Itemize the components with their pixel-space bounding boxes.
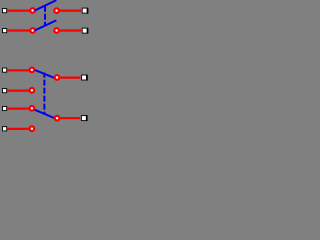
pole C throw 2: contact circle (30, 88, 35, 93)
mechanical link dashed S2 (43, 73, 45, 114)
pole B: pin square right (82, 28, 87, 33)
pole B: contact circle right (54, 28, 59, 33)
pole D throw 2: pin square (3, 127, 7, 131)
pole B: pin square left (3, 29, 7, 33)
pole C throw 2: wire (7, 89, 30, 91)
pole D common: pin square thick edge (86, 115, 87, 121)
pole D lever (closed to throw 1) (35, 110, 54, 118)
background (0, 0, 91, 141)
pole D common: wire (60, 117, 80, 119)
pole A: wire right (60, 10, 81, 12)
pole C lever (closed to throw 1) (35, 70, 54, 78)
pole B: wire right (60, 29, 81, 31)
pole C common: pin square thick edge (86, 75, 87, 81)
pole A: wire left (7, 10, 30, 12)
pole B: pin square right thick edge (87, 28, 88, 34)
pole B: lever (blue, open up-right) (35, 20, 57, 30)
switch schematic: ganged DPST (top) and DPDT (bottom) (0, 0, 91, 141)
pole C throw 1: contact circle (30, 68, 35, 73)
pole A: pin square right thick edge (87, 8, 88, 14)
mechanical link dashed S1 (44, 6, 46, 26)
pole A: contact circle right (54, 8, 59, 13)
pole C throw 1: wire (7, 69, 30, 71)
pole A: contact circle left (30, 8, 35, 13)
pole D common: pin square (81, 116, 86, 121)
pole C common: contact circle (55, 75, 60, 80)
pole D throw 2: wire (7, 128, 30, 130)
pole C throw 2: pin square (3, 89, 7, 93)
pole A: lever (blue, open up-right) (35, 0, 57, 10)
pole A: pin square right (82, 8, 87, 13)
pole D common: contact circle (55, 116, 60, 121)
pole C common: pin square (82, 75, 87, 80)
pole C common: wire (60, 76, 80, 78)
pole A: pin square left (3, 9, 7, 13)
pole C throw 1: pin square (3, 68, 7, 72)
pole D throw 1: wire (7, 107, 30, 109)
pole D throw 1: contact circle (30, 106, 35, 111)
pole B: contact circle left (30, 28, 35, 33)
pole B: wire left (7, 29, 30, 31)
pole D throw 2: contact circle (30, 126, 35, 131)
pole D throw 1: pin square (3, 106, 7, 110)
